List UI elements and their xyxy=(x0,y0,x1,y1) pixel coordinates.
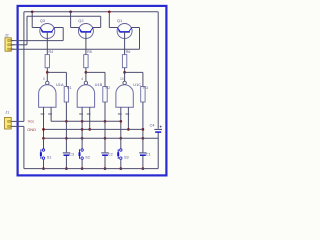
wire U1A input leg 1 xyxy=(43,107,45,138)
wire Q1 base to resistor xyxy=(124,39,126,55)
wire Q3 base to resistor xyxy=(46,39,48,55)
wire J1 pin1 to Vcc drop xyxy=(14,120,24,122)
svg-text:Q1: Q1 xyxy=(117,18,122,23)
wire cap C3 to ground bus xyxy=(65,156,67,169)
wire resistor R6 to node xyxy=(124,68,126,73)
wire J1 pin2 to GND drop xyxy=(14,125,24,127)
wire R1 top xyxy=(65,72,67,86)
resistor R6 xyxy=(122,55,126,68)
resistor R3 xyxy=(141,87,145,103)
wire busR to S1 xyxy=(43,138,45,149)
wire S1 to ground bus xyxy=(43,159,45,168)
svg-text:R2: R2 xyxy=(106,86,111,90)
node dot U1C output xyxy=(123,71,126,74)
wire Q1 emitter lead xyxy=(109,27,117,29)
wire Q2 emitter lead xyxy=(71,27,79,29)
wire C4 bottom to ground xyxy=(157,133,159,169)
wire S2 to ground bus xyxy=(81,159,83,168)
resistor R1 xyxy=(64,87,68,103)
wire U1A output stub xyxy=(46,72,48,81)
wire pin2 riser (lineB to rail2) xyxy=(26,16,28,45)
capacitor C1 xyxy=(139,153,146,155)
svg-text:C2: C2 xyxy=(108,152,113,156)
wire J2 pin3 line to Q1 collector riser xyxy=(11,48,139,50)
wire bus R xyxy=(44,137,159,139)
wire Q3 emitter riser xyxy=(31,12,33,28)
svg-text:Q3: Q3 xyxy=(40,18,45,23)
wire R2 bottom to cap C2 xyxy=(104,102,106,152)
NAND gate U1A xyxy=(39,81,56,107)
wire GND left drop (J1 pin2) xyxy=(23,126,25,168)
wire R3 bottom to cap C1 xyxy=(142,102,144,152)
wire Vcc rail1 horizontal xyxy=(24,11,158,13)
wire node to resistor R1 xyxy=(47,71,66,73)
wire Q2 emitter riser xyxy=(70,12,72,28)
wire busR to S2 xyxy=(81,138,83,149)
switch S3 xyxy=(117,149,122,160)
transistor Q1 xyxy=(117,24,132,40)
junction dot C2 ground xyxy=(104,167,107,170)
pin tick U1A.2 xyxy=(48,113,52,115)
svg-text:R6: R6 xyxy=(126,50,131,54)
svg-text:GND: GND xyxy=(27,127,36,132)
NAND gate U1C xyxy=(116,81,133,107)
wire bus P xyxy=(51,120,121,122)
wire resistor R4 to node xyxy=(46,68,48,73)
wire rail2 horizontal xyxy=(27,15,101,17)
wire S3 to ground bus xyxy=(120,159,122,168)
wire Q2 collector riser to rail2 xyxy=(100,16,102,27)
wire cap C1 to ground bus xyxy=(142,156,144,169)
junction dot R1/busP xyxy=(65,120,68,123)
svg-text:R3: R3 xyxy=(143,86,148,90)
wire Q1 collector lead xyxy=(132,27,140,29)
capacitor C4 xyxy=(154,126,162,133)
svg-text:C1: C1 xyxy=(146,152,151,156)
junction dot R3/busQ xyxy=(142,128,145,131)
wire Q1 collector drop to lineC xyxy=(139,28,141,50)
wire busR to S3 xyxy=(120,138,122,149)
wire cap C2 to ground bus xyxy=(104,156,106,169)
wire ground bus xyxy=(24,168,158,170)
junction dot S2 busR xyxy=(81,137,84,140)
svg-text:Q2: Q2 xyxy=(78,18,83,23)
wire Q2 base to resistor xyxy=(85,39,87,55)
svg-text:C4: C4 xyxy=(150,124,155,128)
pin tick U1C.1 xyxy=(118,113,122,115)
junction dot U1B right leg / busQ xyxy=(88,128,91,131)
wire resistor R5 to node xyxy=(85,68,87,73)
NAND gate U1B xyxy=(77,81,94,107)
wire U1A input leg 2 xyxy=(50,107,52,121)
wire Q2 collector lead xyxy=(93,27,101,29)
svg-text:J1: J1 xyxy=(5,110,9,114)
junction dot C2/busR xyxy=(104,137,107,140)
capacitor C3 xyxy=(63,153,70,155)
svg-text:R4: R4 xyxy=(49,50,54,54)
svg-text:U1C: U1C xyxy=(133,82,141,87)
junction dot busQ left end xyxy=(42,128,45,131)
svg-text:C3: C3 xyxy=(69,152,74,156)
transistor Q3 xyxy=(40,24,55,40)
pin tick U1B.1 xyxy=(79,113,83,115)
junction dot rail1/Q2 emitter xyxy=(69,10,72,13)
wire bus Q xyxy=(44,128,143,130)
wire node to resistor R2 xyxy=(86,71,105,73)
junction dot U1B left leg / busQ xyxy=(81,128,84,131)
wire U1C input leg 1 xyxy=(120,107,122,138)
junction dot C3/busR xyxy=(65,137,68,140)
node dot U1B output xyxy=(85,71,88,74)
svg-text:R1: R1 xyxy=(67,86,72,90)
junction dot R2/busP xyxy=(104,120,107,123)
connector J2 xyxy=(5,38,14,51)
wire U1C output stub xyxy=(124,72,126,81)
svg-text:S3: S3 xyxy=(124,156,129,160)
wire Vcc left drop (rail1 to J1 pin1) xyxy=(23,12,25,122)
wire U1B input leg 1 xyxy=(81,107,83,138)
resistor R2 xyxy=(103,87,107,103)
junction dot S1 ground xyxy=(42,167,45,170)
junction dot rail1/Q3 emitter xyxy=(31,10,34,13)
svg-text:4: 4 xyxy=(81,77,83,81)
pin tick U1C.2 xyxy=(126,113,130,115)
svg-text:J2: J2 xyxy=(5,34,9,38)
wire Q1 emitter riser xyxy=(108,12,110,28)
wire node to resistor R3 xyxy=(125,71,143,73)
svg-text:10: 10 xyxy=(120,77,124,81)
junction dot S3 ground xyxy=(119,167,122,170)
wire U1B input leg 2 xyxy=(89,107,91,129)
switch S1 xyxy=(40,149,45,160)
wire Q3 collector lead xyxy=(55,27,64,29)
pin tick U1B.2 xyxy=(87,113,91,115)
junction dot U1B left leg / busP xyxy=(81,120,84,123)
wire R3 top xyxy=(142,72,144,86)
resistor R5 xyxy=(84,55,88,68)
svg-text:S2: S2 xyxy=(85,156,90,160)
wire J2 pin2 line xyxy=(11,44,27,46)
node dot U1A output xyxy=(46,71,49,74)
capacitor C2 xyxy=(101,153,108,155)
wire R2 top xyxy=(104,72,106,86)
wire U1C input leg 2 xyxy=(127,107,129,129)
junction dot U1C right leg / busQ xyxy=(127,128,130,131)
junction dot rail1/Q1 emitter xyxy=(108,10,111,13)
wire J2 pin1 line to Q3 collector xyxy=(11,40,63,42)
junction dot S3 busR xyxy=(119,137,122,140)
connector J1 xyxy=(5,117,15,129)
svg-text:R5: R5 xyxy=(87,50,92,54)
svg-text:Vcc: Vcc xyxy=(28,118,35,123)
junction dot C3 ground xyxy=(65,167,68,170)
wire U1B output stub xyxy=(85,72,87,81)
junction dot C1 ground xyxy=(142,167,145,170)
pin tick U1A.1 xyxy=(41,113,45,115)
wire Q3 collector drop xyxy=(62,28,64,41)
wire R1 bottom to cap C3 xyxy=(65,102,67,152)
resistor R4 xyxy=(45,55,49,68)
svg-text:3: 3 xyxy=(43,77,45,81)
junction dot U1C left leg / busP end xyxy=(119,120,122,123)
svg-text:S1: S1 xyxy=(47,156,52,160)
wire Vcc right drop (rail1 to C4) xyxy=(157,12,159,129)
svg-text:U1B: U1B xyxy=(95,82,103,87)
sheet border (blue frame) xyxy=(18,6,167,176)
junction dot R3/busR xyxy=(142,137,145,140)
svg-text:U1A: U1A xyxy=(56,82,64,87)
junction dot S1 busR xyxy=(42,137,45,140)
junction dot S2 ground xyxy=(81,167,84,170)
wire Q3 emitter lead xyxy=(32,27,40,29)
transistor Q2 xyxy=(78,24,93,40)
switch S2 xyxy=(79,149,84,160)
